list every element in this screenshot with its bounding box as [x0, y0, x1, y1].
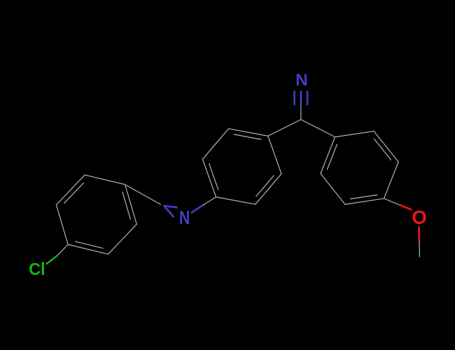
nitrile triple bond line right — [306, 91, 308, 104]
chlorophenyl inner double-bond lines — [64, 183, 130, 248]
bond C1-CH imine gray — [125, 185, 161, 205]
bond alphaC-Cm1 — [301, 120, 335, 138]
bond N-C1central blue half — [192, 205, 203, 213]
svg-text:O: O — [412, 207, 427, 229]
bond C4central-alphaC — [268, 120, 301, 137]
svg-text:N: N — [296, 71, 308, 90]
svg-text:N: N — [179, 208, 190, 228]
methoxyphenyl ring — [321, 131, 399, 204]
bond C4-Cl green half — [47, 255, 58, 263]
central ring inner double-bond lines — [209, 134, 274, 196]
bond alphaC-nitrileC — [300, 105, 302, 120]
bond Cm4-O red half — [400, 205, 411, 210]
imine C=N blue line lower — [165, 207, 174, 217]
bond C4-Cl gray half — [57, 245, 68, 256]
bond Cm4-O gray half — [384, 199, 400, 205]
methoxyphenyl inner double-bond lines — [327, 139, 391, 199]
nitrile triple bond line left — [293, 91, 295, 104]
nitrile triple bond line middle — [300, 91, 302, 104]
chlorophenyl ring — [56, 175, 136, 254]
svg-text:Cl: Cl — [29, 259, 46, 279]
bond O-CH3 gray half — [418, 242, 420, 257]
bond N-C1central gray half — [203, 197, 216, 205]
central benzene ring — [203, 129, 282, 205]
bond O-CH3 red half — [418, 227, 420, 242]
imine C=N blue line upper — [164, 206, 177, 208]
